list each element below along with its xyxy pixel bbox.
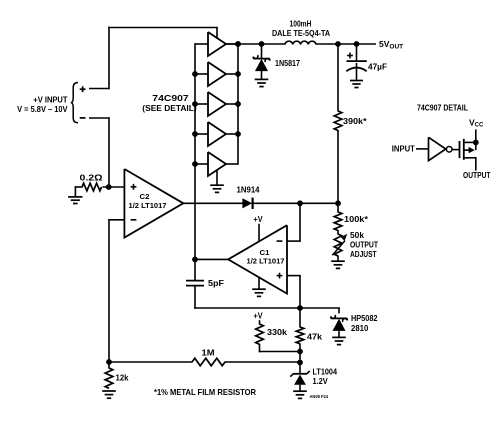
label C2 1/2 LT1017 <box>129 203 167 210</box>
ground for 0.2ohm <box>68 186 82 203</box>
svg-text:LT1004: LT1004 <box>313 368 338 377</box>
inverter U1d <box>195 122 238 146</box>
svg-text:+V INPUT: +V INPUT <box>33 95 67 104</box>
svg-text:2810: 2810 <box>351 324 369 333</box>
svg-text:V = 5.8V – 10V: V = 5.8V – 10V <box>17 105 68 114</box>
svg-text:0.2Ω: 0.2Ω <box>80 174 104 183</box>
label 50k <box>350 231 365 240</box>
label 5VOUT <box>379 39 403 51</box>
wire C2 inverting input <box>108 220 125 363</box>
ground 50k pot <box>331 261 345 268</box>
wire inductor to 5Vout <box>316 43 377 45</box>
svg-text:C2: C2 <box>140 194 150 201</box>
bubble detail <box>446 147 452 153</box>
svg-text:ADJUST: ADJUST <box>350 250 377 259</box>
svg-text:1/2 LT1017: 1/2 LT1017 <box>247 259 285 266</box>
node input brace <box>71 83 78 123</box>
node 0.2ohm junction <box>103 184 126 190</box>
wire detail input <box>416 148 429 150</box>
svg-text:47k: 47k <box>307 333 323 342</box>
svg-text:47µF: 47µF <box>368 62 387 71</box>
label 47k <box>307 333 323 342</box>
node input bus dots <box>192 71 198 167</box>
inductor 100mH <box>285 41 316 44</box>
inverter U1a <box>195 32 238 56</box>
wire riser to top rail <box>108 27 218 90</box>
pot 50k wiper <box>332 230 347 261</box>
wire 1M left <box>109 361 193 363</box>
svg-text:*1% METAL FILM RESISTOR: *1% METAL FILM RESISTOR <box>154 387 256 397</box>
inverter detail <box>429 137 446 160</box>
ground inverter stack <box>210 170 224 193</box>
svg-text:50k: 50k <box>350 231 365 240</box>
label C1 plus <box>277 273 283 279</box>
wire +V input plus lead <box>89 88 110 90</box>
wire inverter input bus <box>194 43 196 260</box>
wire C1 noninv input <box>287 276 301 309</box>
wire 1N914 cathode to divider <box>252 202 338 204</box>
label LT1004 <box>313 368 338 377</box>
wire rail to 390k <box>337 44 339 112</box>
label OUTPUT detail <box>463 171 491 180</box>
svg-text:OUTPUT: OUTPUT <box>350 241 378 250</box>
inverter U1b <box>195 62 238 86</box>
svg-text:1/2 LT1017: 1/2 LT1017 <box>129 203 167 210</box>
diode 1N914 <box>242 198 252 209</box>
svg-text:HP5082: HP5082 <box>351 314 378 323</box>
label C2 plus <box>131 184 137 190</box>
node C2 inv junction <box>106 359 112 365</box>
svg-text:1.2V: 1.2V <box>313 377 329 386</box>
label 47uF <box>368 62 387 71</box>
svg-text:5pF: 5pF <box>208 279 224 288</box>
wire C1 output <box>194 258 228 260</box>
label - terminal <box>80 117 86 119</box>
svg-text:DALE TE-5Q4-TA: DALE TE-5Q4-TA <box>272 29 330 38</box>
wire C1 inv input <box>287 203 301 242</box>
node A <box>192 257 198 263</box>
svg-text:(SEE DETAIL): (SEE DETAIL) <box>142 104 197 113</box>
label ADJUST <box>350 250 377 259</box>
wire 1M right <box>225 361 301 363</box>
wire node to 100k <box>337 203 339 213</box>
label DALE TE-5Q4-TA <box>272 29 330 38</box>
wire node B to HP5082 <box>300 308 340 313</box>
label V = 5.8V - 10V <box>17 105 68 114</box>
svg-text:1N914: 1N914 <box>237 185 261 194</box>
label C1 +V <box>254 215 264 224</box>
node divider tap <box>335 200 341 206</box>
node 330k join <box>297 349 303 355</box>
label Vcc <box>469 117 484 128</box>
resistor 12k <box>102 362 116 398</box>
op-amp C2 <box>124 169 183 238</box>
label C2 <box>140 194 150 201</box>
label 1N914 <box>237 185 261 194</box>
label INPUT <box>392 145 415 154</box>
label 100mH <box>290 20 312 29</box>
diode HP5082-2810 <box>331 315 347 345</box>
svg-text:12k: 12k <box>116 374 130 383</box>
label HP5082 <box>351 314 378 323</box>
resistor 1M <box>192 358 225 366</box>
label 330k +V <box>254 312 264 321</box>
svg-text:100mH: 100mH <box>290 20 312 29</box>
label C1 <box>260 250 270 257</box>
transistor PMOS detail <box>460 139 477 171</box>
wire C1 V+ pin <box>258 224 260 242</box>
label 1N5817 <box>275 59 300 68</box>
svg-text:74C907 DETAIL: 74C907 DETAIL <box>417 103 468 112</box>
label 5pF <box>208 279 224 288</box>
resistor 330k <box>256 320 264 344</box>
label 74C907 <box>152 94 189 103</box>
label 1M <box>202 348 215 357</box>
label C1 minus <box>277 240 283 242</box>
node output bus dots <box>235 41 241 137</box>
svg-text:C1: C1 <box>260 250 270 257</box>
label 330k <box>267 328 288 337</box>
svg-text:74C907: 74C907 <box>152 94 189 103</box>
inverter U1e <box>195 152 238 176</box>
wire node A lower to node B <box>194 307 301 309</box>
resistor 47k <box>296 327 304 344</box>
wire inverter output bus <box>237 43 239 165</box>
inverter U1c <box>195 92 238 116</box>
wire C2 output <box>183 202 244 204</box>
svg-text:1N5817: 1N5817 <box>275 59 300 68</box>
wire detail Vcc <box>473 129 479 145</box>
node B <box>297 305 303 311</box>
svg-text:+V: +V <box>254 215 264 224</box>
diode LT1004 <box>290 371 309 399</box>
node C1 inv tap <box>297 200 303 206</box>
label 2810 <box>351 324 369 333</box>
wire 390k to node <box>337 130 339 204</box>
svg-text:OUTPUT: OUTPUT <box>463 171 491 180</box>
label 1.2V <box>313 377 329 386</box>
node 1M join <box>297 360 303 366</box>
svg-text:390k*: 390k* <box>343 117 368 126</box>
wire rail to inductor <box>226 43 286 45</box>
resistor 390k <box>334 111 342 131</box>
label +V INPUT <box>33 95 67 104</box>
label 0.2ohm <box>80 174 104 183</box>
wire bubble to gate <box>452 149 460 151</box>
op-amp C1 <box>228 225 287 293</box>
svg-text:+V: +V <box>254 312 264 321</box>
svg-text:330k: 330k <box>267 328 288 337</box>
wire -V input lead <box>89 117 110 188</box>
wire C1 gnd pin <box>252 277 266 296</box>
diode 1N5817 <box>253 44 269 87</box>
resistor 100k <box>334 212 342 231</box>
svg-text:INPUT: INPUT <box>392 145 415 154</box>
capacitor 47uF <box>346 44 367 88</box>
svg-text:AN08 F24: AN08 F24 <box>310 394 329 399</box>
node rail junctions <box>235 41 359 47</box>
label 12k <box>116 374 130 383</box>
label metal film note <box>154 387 256 397</box>
label + terminal <box>80 86 86 92</box>
label SEE DETAIL <box>142 104 197 113</box>
label 100k <box>344 215 369 224</box>
wire 47k bottom <box>299 343 301 374</box>
label 390k <box>343 117 368 126</box>
label C2 minus <box>131 219 137 221</box>
wire 330k to node <box>259 344 300 353</box>
label C1 1/2 LT1017 <box>247 259 285 266</box>
label OUTPUT adj <box>350 241 378 250</box>
label AN08 F24 <box>310 394 329 399</box>
label 47uF plus <box>347 53 353 59</box>
wire node B to 47k <box>299 308 301 328</box>
label 74C907 DETAIL <box>417 103 468 112</box>
resistor 0.2ohm <box>82 183 102 191</box>
svg-text:100k*: 100k* <box>344 215 369 224</box>
svg-text:1M: 1M <box>202 348 215 357</box>
capacitor 5pF <box>186 259 204 308</box>
